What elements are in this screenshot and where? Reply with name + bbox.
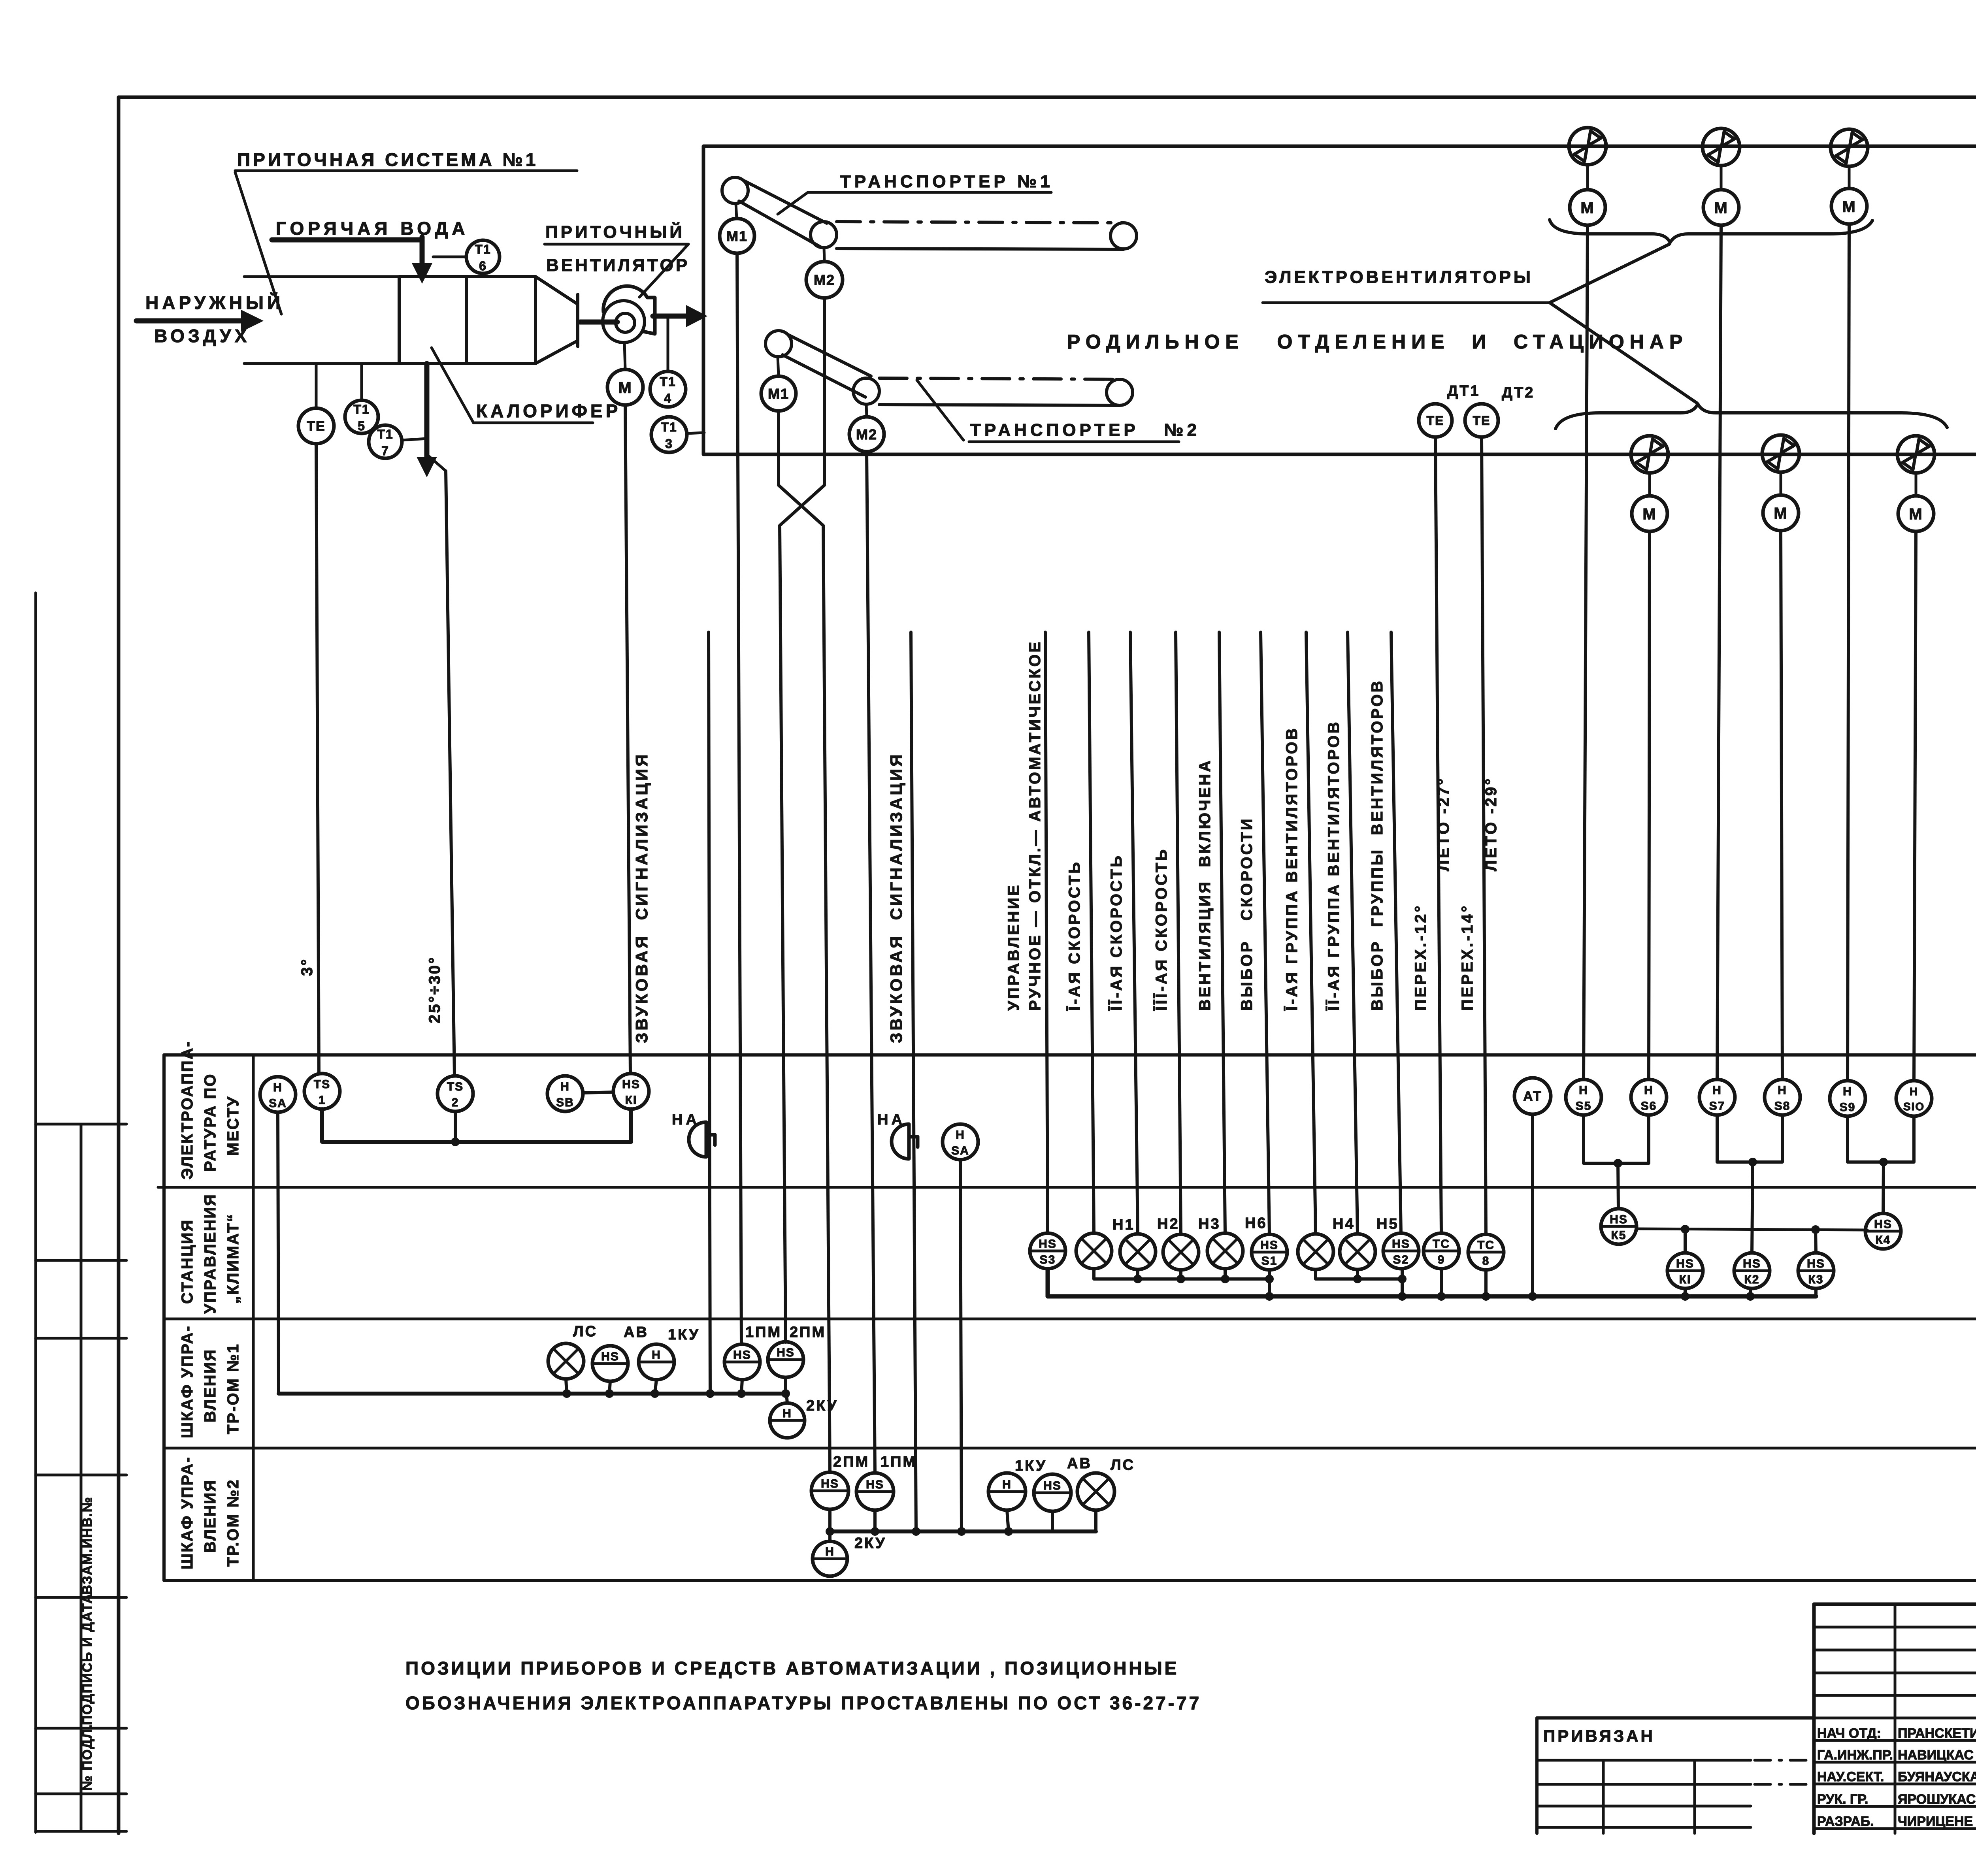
svg-text:S9: S9 (1840, 1101, 1856, 1114)
leader to building box (687, 433, 704, 433)
wire fan group select (1391, 632, 1401, 1233)
wire K2 down (1749, 1289, 1752, 1296)
svg-text:ВЛЕНИЯ: ВЛЕНИЯ (202, 1479, 219, 1553)
svg-text:РУК. ГР.: РУК. ГР. (1817, 1792, 1868, 1807)
svg-text:S5: S5 (1576, 1100, 1592, 1113)
svg-text:НS: НS (1039, 1237, 1057, 1251)
brace lower fan group (1556, 404, 1947, 429)
brace upper fan group (1550, 220, 1872, 243)
instrument HS AB cabinet2 (1034, 1474, 1071, 1511)
svg-text:ТРАНСПОРТЕР №2: ТРАНСПОРТЕР №2 (970, 420, 1200, 440)
svg-text:SB: SB (556, 1096, 574, 1109)
svg-text:М1: М1 (768, 386, 789, 402)
instrument H S10 (1896, 1081, 1932, 1116)
svg-text:Н: Н (652, 1349, 661, 1362)
svg-text:ШКАФ УПРА-: ШКАФ УПРА- (179, 1456, 196, 1569)
svg-text:М: М (618, 379, 632, 396)
relay bus (1637, 1229, 1867, 1230)
wire fan column S10 (1914, 531, 1916, 1081)
instrument HS 2PM cabinet2 (811, 1472, 848, 1509)
svg-text:ЛЕТО -27°: ЛЕТО -27° (1435, 777, 1452, 871)
relay HS K4 (1865, 1213, 1901, 1249)
svg-text:„КЛИМАТ“: „КЛИМАТ“ (224, 1213, 242, 1304)
svg-text:ДТ2: ДТ2 (1502, 384, 1535, 401)
instrument TC8 (1468, 1234, 1504, 1270)
svg-text:S1: S1 (1261, 1254, 1278, 1268)
svg-text:Н: Н (782, 1407, 792, 1420)
lamp H5 (1340, 1234, 1375, 1270)
svg-text:НА: НА (877, 1111, 905, 1128)
electric fan upper 2 (1703, 128, 1740, 166)
svg-text:ЗВУКОВАЯ СИГНАЛИЗАЦИЯ: ЗВУКОВАЯ СИГНАЛИЗАЦИЯ (632, 752, 651, 1043)
sound alarm horn HA-2 (892, 1124, 909, 1159)
svg-text:НАРУЖНЫЙ: НАРУЖНЫЙ (145, 292, 284, 313)
wire DT2 to TC8 (1482, 438, 1486, 1234)
sensor TE ДТ2 (1465, 404, 1498, 437)
svg-text:Н1: Н1 (1112, 1217, 1135, 1233)
svg-text:ПЕРЕХ.-14°: ПЕРЕХ.-14° (1459, 904, 1476, 1011)
svg-text:НS: НS (777, 1346, 795, 1359)
leader line (432, 348, 473, 423)
svg-text:2КУ: 2КУ (806, 1398, 838, 1414)
svg-text:НS: НS (866, 1478, 884, 1491)
instrument M fan1 motor (607, 369, 643, 405)
transporter-1 end roller (1111, 223, 1137, 249)
svg-text:Н: Н (956, 1128, 965, 1141)
relay HS K3 (1798, 1253, 1834, 1288)
svg-text:ДТ1: ДТ1 (1447, 383, 1480, 399)
sound alarm horn HA-1 (689, 1122, 706, 1157)
wire speed select (1261, 632, 1269, 1234)
transporter-2 head roller (766, 331, 792, 357)
electric fan upper 1 (1569, 128, 1606, 165)
wire (1780, 472, 1782, 495)
wire fan group I (1306, 632, 1316, 1234)
electric fan upper 3 (1831, 129, 1868, 166)
wire AT to station bus (1531, 1114, 1534, 1296)
svg-text:М: М (1642, 505, 1656, 523)
svg-text:М1: М1 (726, 228, 748, 244)
lamp bus 1 (1094, 1269, 1269, 1279)
svg-text:ĪĪ-АЯ СКОРОСТЬ: ĪĪ-АЯ СКОРОСТЬ (1108, 854, 1125, 1011)
leader line (917, 380, 963, 440)
wire I speed (1089, 632, 1094, 1233)
svg-text:ПОДПИСЬ И ДАТА: ПОДПИСЬ И ДАТА (80, 1593, 95, 1725)
instrument H 1KU cabinet1 (639, 1344, 674, 1380)
table outline (164, 1053, 1976, 1057)
svg-text:Н3: Н3 (1198, 1216, 1221, 1232)
sheet edge line left (34, 593, 37, 1833)
wire II speed (1130, 632, 1138, 1234)
instrument H SA local 2 (943, 1124, 978, 1160)
svg-text:НS: НS (1392, 1237, 1410, 1251)
wire drain1 to TS2 with 25-30 label (427, 454, 446, 471)
sound signal wire 2 ЗВУКОВАЯ СИГНАЛИЗАЦИЯ (911, 632, 916, 1531)
svg-text:ТР-ОМ №1: ТР-ОМ №1 (224, 1343, 242, 1434)
svg-text:Т1: Т1 (661, 420, 677, 434)
instrument HS 2PM cabinet1 (768, 1342, 803, 1377)
svg-text:УПРАВЛЕНИЕ: УПРАВЛЕНИЕ (1005, 883, 1022, 1011)
wire to HS K4 (1883, 1162, 1884, 1213)
svg-text:ТС: ТС (1477, 1239, 1495, 1252)
lamp H1 (1076, 1233, 1112, 1269)
svg-text:НS: НS (1610, 1213, 1628, 1226)
instrument TS2 local 1 (437, 1076, 473, 1111)
lamp H2 (1120, 1234, 1156, 1270)
motor M of upper fan 1 (1570, 190, 1605, 225)
lamp H6 (1207, 1233, 1243, 1269)
svg-text:ГА.ИНЖ.ПР.: ГА.ИНЖ.ПР. (1817, 1748, 1893, 1763)
svg-text:Н: Н (1712, 1084, 1722, 1097)
title block frame (1814, 1603, 1976, 1606)
svg-text:Н: Н (1910, 1085, 1918, 1098)
svg-text:НАЧ ОТД:: НАЧ ОТД: (1817, 1726, 1881, 1741)
leader line (639, 244, 688, 297)
svg-text:М: М (1580, 199, 1594, 217)
svg-text:НА: НА (672, 1111, 700, 1128)
instrument HS 1PM cabinet2 (856, 1473, 894, 1510)
svg-text:Н4: Н4 (1333, 1216, 1355, 1232)
svg-text:Т1: Т1 (475, 242, 491, 256)
svg-text:КI: КI (1679, 1273, 1691, 1286)
wire fan group II (1348, 632, 1358, 1234)
instrument AT ambient (1514, 1078, 1551, 1114)
pair bus S9-S10 (1848, 1116, 1914, 1162)
svg-text:К4: К4 (1876, 1234, 1891, 1247)
instrument H 1KU cabinet2 (988, 1473, 1026, 1510)
svg-text:Н5: Н5 (1376, 1216, 1399, 1232)
instrument T1-5 system1 (345, 400, 378, 433)
svg-text:НS: НS (1676, 1257, 1694, 1270)
left stamp boxes (36, 1123, 126, 1126)
instrument H S8 (1765, 1079, 1800, 1115)
wire K3 down (1814, 1289, 1818, 1296)
svg-text:НS: НS (821, 1477, 839, 1490)
svg-text:БУЯНАУСКАС: БУЯНАУСКАС (1898, 1769, 1976, 1784)
svg-text:СТАНЦИЯ: СТАНЦИЯ (179, 1219, 196, 1304)
svg-text:К2: К2 (1744, 1273, 1760, 1286)
svg-text:НАУ.СЕКТ.: НАУ.СЕКТ. (1817, 1769, 1884, 1784)
svg-text:№ ПОДЛ.: № ПОДЛ. (80, 1724, 95, 1791)
wire transporter1 M2 crossing to 2PM (780, 298, 824, 1342)
svg-text:Т1: Т1 (353, 402, 370, 416)
svg-text:КI: КI (625, 1094, 637, 1107)
svg-text:2КУ: 2КУ (854, 1535, 886, 1552)
svg-text:Т1: Т1 (660, 375, 676, 389)
svg-text:Н: Н (1778, 1084, 1787, 1097)
instrument HS S2 (1383, 1233, 1419, 1269)
svg-text:ТS: ТS (447, 1080, 464, 1093)
svg-text:1КУ: 1КУ (668, 1326, 700, 1343)
svg-text:ЯРОШУКАС: ЯРОШУКАС (1898, 1792, 1976, 1807)
svg-text:Ī-АЯ ГРУППА ВЕНТИЛЯТОРОВ: Ī-АЯ ГРУППА ВЕНТИЛЯТОРОВ (1283, 726, 1301, 1011)
wires drops cabinet2 (828, 1509, 832, 1531)
svg-text:SA: SA (951, 1144, 969, 1157)
pair bus S7-S8 (1717, 1115, 1782, 1162)
wire transporter2 M1 crossing to cabinet2 2PM (779, 411, 830, 1471)
wire DT1 to TC9 (1435, 438, 1441, 1233)
transporter-1 head roller (722, 177, 748, 203)
transporter-1 horizontal belt (837, 222, 1124, 223)
svg-text:РАЗРАБ.: РАЗРАБ. (1817, 1814, 1874, 1829)
hot water pipe 1 (272, 237, 422, 243)
instrument H S9 (1830, 1081, 1865, 1116)
svg-text:S7: S7 (1709, 1100, 1725, 1113)
svg-text:S8: S8 (1774, 1100, 1791, 1113)
wire to K3 (1816, 1230, 1816, 1253)
svg-text:SA: SA (269, 1097, 287, 1110)
electric fan lower 2 (1762, 435, 1799, 472)
svg-text:М: М (1909, 505, 1923, 523)
svg-text:МЕСТУ: МЕСТУ (224, 1096, 242, 1156)
svg-text:АВ: АВ (1067, 1455, 1092, 1472)
cabinet2 bus (830, 1529, 1096, 1533)
svg-text:S6: S6 (1641, 1100, 1657, 1113)
relay HS K2 (1734, 1253, 1770, 1288)
wire fan column S7 (1717, 225, 1721, 1079)
svg-text:ЛС: ЛС (1111, 1457, 1135, 1473)
svg-text:М2: М2 (856, 426, 877, 443)
sound signal wire 1 ЗВУКОВАЯ СИГНАЛИЗАЦИЯ (709, 632, 710, 1397)
leader line (778, 192, 808, 214)
svg-text:ПРИВЯЗАН: ПРИВЯЗАН (1543, 1727, 1655, 1745)
instrument HS 1PM cabinet1 (724, 1344, 760, 1380)
air heater 1 КАЛОРИФЕР body (399, 277, 535, 364)
transporter-1 drive M2 (806, 262, 843, 298)
motor M of upper fan 3 (1831, 188, 1867, 224)
relay HS K5 (1601, 1209, 1637, 1244)
svg-text:ВЫБОР ГРУППЫ ВЕНТИЛЯТОРОВ: ВЫБОР ГРУППЫ ВЕНТИЛЯТОРОВ (1369, 679, 1386, 1011)
svg-text:М2: М2 (814, 272, 835, 288)
instrument HS K1 local 1 (613, 1074, 649, 1109)
instrument H SA local 1 (260, 1077, 296, 1112)
transporter-2 drive M1 (761, 376, 796, 411)
svg-text:S2: S2 (1393, 1253, 1409, 1266)
wire (1648, 473, 1651, 496)
instrument H 2KU cabinet2 (828, 1531, 832, 1541)
svg-text:ЗВУКОВАЯ СИГНАЛИЗАЦИЯ: ЗВУКОВАЯ СИГНАЛИЗАЦИЯ (887, 752, 905, 1043)
instrument HS S3 (1030, 1233, 1065, 1269)
svg-text:ПЕРЕХ.-12°: ПЕРЕХ.-12° (1412, 904, 1429, 1011)
svg-text:Н: Н (1002, 1478, 1012, 1491)
wire fan column S9 (1848, 224, 1849, 1081)
svg-text:ТР.ОМ №2: ТР.ОМ №2 (224, 1479, 242, 1567)
station bus thick (1048, 1269, 1816, 1296)
svg-text:ТЕ: ТЕ (1473, 414, 1491, 428)
svg-text:ВЕНТИЛЯЦИЯ ВКЛЮЧЕНА: ВЕНТИЛЯЦИЯ ВКЛЮЧЕНА (1196, 759, 1214, 1011)
wire link HSB-HSK1 (583, 1092, 613, 1093)
svg-text:ВЗАМ.ИНВ.№: ВЗАМ.ИНВ.№ (80, 1496, 95, 1595)
cabinet1 bus (279, 1392, 786, 1396)
instrument TS1 local 1 (304, 1074, 340, 1109)
wire fan column S6 (1649, 531, 1650, 1079)
instrument H S5 (1566, 1079, 1601, 1115)
svg-text:НS: НS (1260, 1239, 1278, 1252)
svg-text:8: 8 (1482, 1254, 1490, 1268)
transporter-2 end roller (1107, 379, 1133, 405)
svg-text:Н: Н (1644, 1084, 1654, 1097)
svg-text:Н: Н (273, 1081, 283, 1094)
svg-text:ШКАФ УПРА-: ШКАФ УПРА- (179, 1325, 196, 1438)
svg-text:Н: Н (825, 1545, 835, 1558)
svg-text:2ПМ: 2ПМ (833, 1454, 869, 1470)
svg-text:НS: НS (1743, 1257, 1761, 1270)
svg-text:АВ: АВ (624, 1324, 649, 1341)
fan 1 outlet arrow into building (653, 314, 687, 319)
instrument HS AB cabinet1 (592, 1346, 628, 1381)
svg-text:ТS: ТS (314, 1078, 330, 1091)
transporter-2 inclined belt (788, 335, 871, 376)
wires drops cabinet1 (566, 1379, 567, 1394)
svg-text:ТРАНСПОРТЕР №1: ТРАНСПОРТЕР №1 (840, 172, 1054, 191)
wire fan1 M to HS K1 (625, 405, 630, 1074)
svg-text:М: М (1842, 198, 1856, 215)
svg-text:ЧИРИЦЕНЕ: ЧИРИЦЕНЕ (1898, 1814, 1973, 1829)
svg-text:5: 5 (358, 419, 366, 433)
wire to HS K5 (1618, 1163, 1618, 1209)
svg-text:ТЕ: ТЕ (307, 419, 325, 434)
svg-text:1ПМ: 1ПМ (745, 1324, 782, 1341)
instrument T1-4 system1 (650, 371, 686, 407)
diffuser 1 (535, 277, 578, 304)
instrument T1-3 system1 (651, 417, 687, 452)
svg-text:7: 7 (381, 444, 389, 458)
svg-text:ĪĪ-АЯ ГРУППА ВЕНТИЛЯТОРОВ: ĪĪ-АЯ ГРУППА ВЕНТИЛЯТОРОВ (1325, 720, 1342, 1011)
wire K1 down (1684, 1289, 1687, 1296)
leader line (235, 172, 281, 314)
motor M of lower fan 3 (1898, 496, 1934, 531)
transporter-1 mid roller (811, 222, 837, 248)
wire to K1 (1684, 1229, 1687, 1253)
svg-text:Ī-АЯ СКОРОСТЬ: Ī-АЯ СКОРОСТЬ (1066, 860, 1083, 1011)
privyazan box (1537, 1716, 1814, 1720)
wire transporter1 M1 to 1PM (737, 253, 741, 1345)
svg-text:НS: НS (1807, 1257, 1825, 1270)
svg-text:ЭЛЕКТРОАППА-: ЭЛЕКТРОАППА- (179, 1040, 196, 1179)
electric fan lower 3 (1897, 436, 1935, 473)
svg-text:Т1: Т1 (377, 427, 393, 441)
svg-text:КАЛОРИФЕР: КАЛОРИФЕР (476, 401, 621, 421)
svg-text:ВЫБОР СКОРОСТИ: ВЫБОР СКОРОСТИ (1238, 817, 1256, 1011)
svg-text:НS: НS (1874, 1218, 1892, 1231)
svg-text:ПРАНСКЕТИС: ПРАНСКЕТИС (1898, 1726, 1976, 1741)
leader to lower fan group (1550, 303, 1697, 403)
wire (1848, 166, 1851, 188)
control wire УПРАВЛЕНИЕ РУЧНОЕ-ОТКЛ-АВТОМАТИЧЕСКОЕ (1045, 632, 1048, 1233)
title block small grid (1814, 1626, 1976, 1629)
svg-text:К5: К5 (1611, 1229, 1627, 1242)
svg-text:ТС: ТС (1433, 1237, 1450, 1251)
svg-text:ĪĪĪ-АЯ СКОРОСТЬ: ĪĪĪ-АЯ СКОРОСТЬ (1153, 848, 1170, 1011)
svg-text:Н: Н (1579, 1084, 1588, 1097)
svg-text:РАТУРА ПО: РАТУРА ПО (202, 1073, 219, 1172)
wire transporter2 M2 to cabinet2 1PM (867, 452, 875, 1472)
duct 1 walls (244, 275, 399, 278)
svg-text:ПОЗИЦИИ ПРИБОРОВ И СРЕДСТВ: ПОЗИЦИИ ПРИБОРОВ И СРЕДСТВ АВТОМАТИЗАЦИИ… (405, 1658, 1179, 1678)
svg-text:ПРИТОЧНАЯ СИСТЕМА №1: ПРИТОЧНАЯ СИСТЕМА №1 (237, 149, 538, 170)
svg-text:НАВИЦКАС: НАВИЦКАС (1898, 1748, 1974, 1763)
svg-text:НS: НS (1043, 1479, 1062, 1492)
wire HSA1 down to cabinet1 bus (278, 1112, 279, 1394)
electric fan lower 1 (1631, 436, 1668, 473)
instrument T1-6 system1 (466, 240, 500, 273)
svg-text:ЭЛЕКТРОВЕНТИЛЯТОРЫ: ЭЛЕКТРОВЕНТИЛЯТОРЫ (1265, 267, 1533, 287)
motor M of lower fan 2 (1763, 495, 1799, 531)
supply fan 1 (603, 301, 645, 343)
motor M of lower fan 1 (1632, 496, 1667, 531)
transporter-2 drive M2 (849, 417, 884, 452)
transporter-1 inclined belt (745, 181, 827, 223)
instrument TC9 (1424, 1233, 1459, 1269)
svg-text:1: 1 (319, 1094, 326, 1107)
svg-text:SIO: SIO (1903, 1100, 1925, 1113)
instrument T1-7 system1 (369, 425, 402, 458)
svg-text:S3: S3 (1040, 1253, 1056, 1266)
svg-text:6: 6 (479, 259, 487, 273)
lamp LS cabinet1 (548, 1343, 584, 1379)
svg-text:ОБОЗНАЧЕНИЯ ЭЛЕКТРОАППАРАТУРЫ: ОБОЗНАЧЕНИЯ ЭЛЕКТРОАППАРАТУРЫ ПРОСТАВЛЕН… (405, 1693, 1201, 1713)
svg-text:2ПМ: 2ПМ (790, 1324, 826, 1341)
wire TE1 to TS1 with 3deg label (316, 444, 319, 1074)
svg-text:ВЛЕНИЯ: ВЛЕНИЯ (202, 1349, 219, 1422)
transporter-2 mid roller (853, 378, 879, 404)
instrument H SB local 1 (547, 1076, 583, 1111)
instrument HS S1 (1252, 1234, 1287, 1270)
svg-text:Н: Н (1843, 1085, 1852, 1098)
svg-text:ТЕ: ТЕ (1427, 414, 1444, 428)
sheet border frame (119, 96, 1976, 99)
wire III speed (1176, 632, 1181, 1234)
svg-text:М: М (1714, 199, 1728, 217)
wire (1720, 166, 1723, 190)
svg-text:4: 4 (664, 391, 672, 405)
svg-text:ГОРЯЧАЯ ВОДА: ГОРЯЧАЯ ВОДА (276, 218, 469, 239)
svg-text:1КУ: 1КУ (1015, 1458, 1047, 1474)
wire fan column S5 (1584, 225, 1588, 1079)
svg-text:25°÷30°: 25°÷30° (426, 956, 443, 1023)
svg-text:3: 3 (665, 437, 673, 451)
wire to HS K2 (1752, 1162, 1753, 1253)
lamp H3 (1163, 1234, 1199, 1270)
svg-text:1ПМ: 1ПМ (881, 1454, 917, 1470)
svg-text:АТ: АТ (1523, 1089, 1542, 1104)
svg-text:РУЧНОЕ — ОТКЛ.— АВТОМАТИЧЕСКОЕ: РУЧНОЕ — ОТКЛ.— АВТОМАТИЧЕСКОЕ (1026, 640, 1044, 1011)
wire HSA2 down to cabinet2 bus (960, 1160, 962, 1531)
svg-text:НS: НS (622, 1078, 640, 1091)
sensor TE ДТ1 (1419, 404, 1452, 437)
svg-text:Н: Н (560, 1080, 570, 1093)
wire (1586, 165, 1589, 190)
building outline РОДИЛЬНОЕ ОТДЕЛЕНИЕ И СТАЦИОНАР (703, 146, 1976, 454)
svg-text:ЛС: ЛС (573, 1323, 598, 1340)
instrument H S7 (1699, 1079, 1735, 1115)
local bus system1 thermostats (322, 1109, 631, 1142)
svg-text:3°: 3° (298, 958, 316, 976)
motor M of upper fan 2 (1703, 190, 1739, 225)
relay HS K1 (1667, 1253, 1703, 1288)
lamp LS cabinet2 (1077, 1473, 1114, 1510)
svg-text:УПРАВЛЕНИЯ: УПРАВЛЕНИЯ (202, 1193, 219, 1314)
svg-text:2: 2 (452, 1096, 459, 1109)
pair bus S5-S6 (1584, 1115, 1649, 1163)
svg-text:Н6: Н6 (1245, 1215, 1267, 1232)
lamp bus 2 (1316, 1270, 1402, 1279)
svg-text:М: М (1774, 505, 1787, 522)
wire (1915, 473, 1918, 496)
wire ventilation on (1219, 632, 1225, 1233)
svg-text:ВОЗДУХ: ВОЗДУХ (154, 326, 250, 346)
heater 1 drain pipe with arrow (424, 364, 430, 454)
